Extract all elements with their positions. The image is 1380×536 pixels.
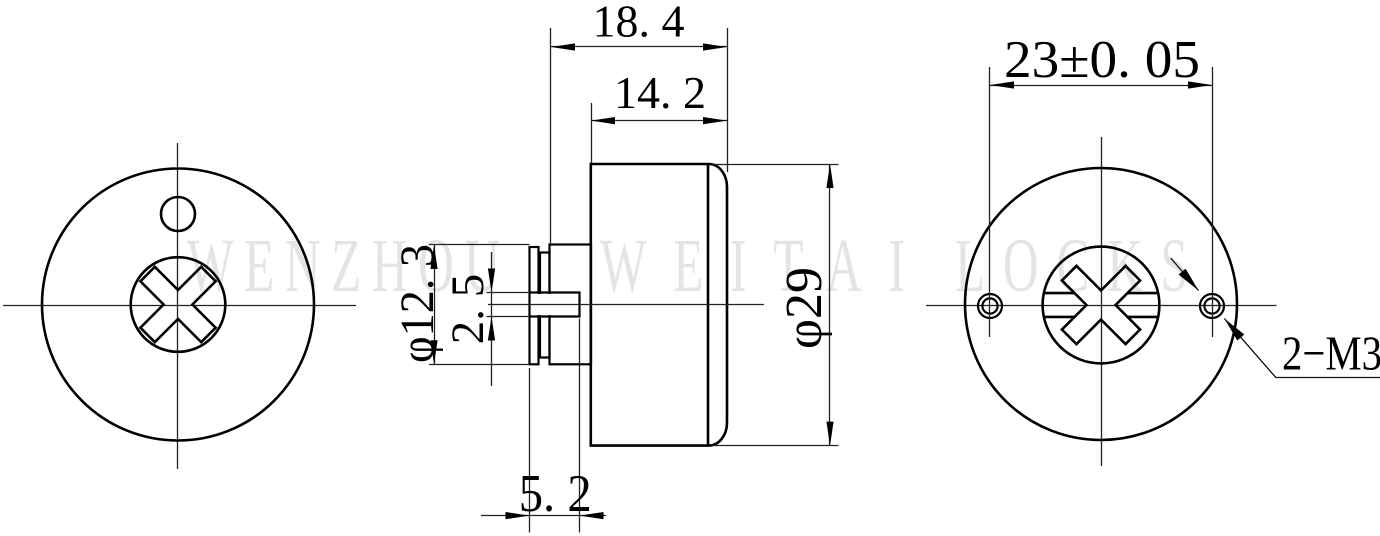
svg-text:φ12. 3: φ12. 3: [391, 244, 444, 363]
motor body: [591, 164, 727, 446]
dim 2.5 extension line top: [487, 292, 530, 294]
slot line left top: [1044, 292, 1075, 295]
dim 2.5 line: [491, 252, 493, 386]
bushing: [550, 245, 592, 365]
dim phi29 line: [829, 164, 831, 446]
dim phi12.3 extension line bottom: [429, 364, 530, 366]
dim phi29 arrow bottom: [826, 422, 833, 446]
left view center boss circle: [131, 257, 226, 352]
shaft outline: [530, 293, 580, 317]
svg-text:18. 4: 18. 4: [593, 0, 685, 47]
right view X cross recess: [1062, 266, 1140, 344]
dim 14.2 arrow right: [703, 117, 727, 124]
leader upper arrow: [1179, 269, 1199, 291]
left view vertical centerline: [177, 143, 179, 469]
watermark WENZHOU WEITAI LOCKS: [187, 223, 1188, 307]
left view small hole: [161, 197, 195, 231]
dim phi12.3 line: [434, 245, 436, 365]
right view horizontal centerline: [926, 305, 1277, 307]
dim 5.2 arrow left: [506, 512, 530, 519]
right view outer circle: [965, 168, 1237, 440]
screw hole right outer: [1200, 294, 1224, 318]
dim 5.2 line: [481, 515, 606, 517]
dim phi12.3 arrow bottom: [430, 340, 437, 364]
dim 23 extension line left: [989, 67, 991, 337]
left view horizontal centerline: [3, 305, 356, 307]
slot line left bottom: [1044, 316, 1075, 319]
dim 5.2 extension line right: [579, 319, 581, 533]
dim 18.4 line: [551, 46, 728, 48]
leader lower segment: [1224, 319, 1380, 378]
dim 18.4 extension line left: [550, 28, 552, 244]
dim 23 line: [990, 85, 1212, 87]
left view outer circle: [42, 169, 314, 441]
screw hole left inner: [982, 298, 997, 313]
leader lower arrow: [1224, 319, 1244, 341]
slot line right bottom: [1128, 316, 1159, 319]
svg-text:14. 2: 14. 2: [614, 67, 706, 118]
dim 2.5 extension line bottom: [487, 316, 530, 318]
dim 14.2 line: [591, 120, 728, 122]
dim 23 extension line right: [1212, 67, 1214, 337]
dim 23 arrow left: [990, 81, 1014, 88]
dim 2.5 arrow bottom: [488, 317, 495, 341]
dim phi12.3 extension line top: [429, 244, 530, 246]
dim 14.2 extension line left: [591, 103, 593, 163]
svg-text:φ29: φ29: [776, 267, 833, 349]
slot line right top: [1128, 292, 1159, 295]
dim 5.2 extension line left: [529, 368, 531, 533]
dim 5.2 arrow right: [580, 512, 604, 519]
washer plate 2: [540, 253, 550, 358]
dim 18.4/14.2 extension line right: [727, 28, 729, 172]
dim phi29 extension line top: [712, 164, 839, 166]
svg-text:2−M3: 2−M3: [1282, 326, 1380, 381]
body seam line: [707, 164, 710, 446]
middle view horizontal centerline: [488, 304, 764, 306]
svg-text:5. 2: 5. 2: [519, 465, 592, 523]
right view center boss circle: [1043, 247, 1160, 364]
dim 18.4 arrow left: [551, 43, 575, 50]
svg-text:2. 5: 2. 5: [442, 274, 494, 345]
dim phi29 arrow top: [826, 164, 833, 188]
dim 2.5 arrow top: [488, 269, 495, 293]
dim 14.2 arrow left: [591, 117, 615, 124]
shaft white fill: [531, 294, 580, 315]
leader upper segment: [1171, 258, 1199, 290]
dim 23 arrow right: [1188, 81, 1212, 88]
dim phi12.3 arrow top: [430, 245, 437, 269]
dim 18.4 arrow right: [703, 43, 727, 50]
right view vertical centerline: [1101, 137, 1103, 466]
washer plate 1: [530, 247, 539, 364]
svg-text:23±0. 05: 23±0. 05: [1004, 31, 1200, 89]
left view X cross recess: [140, 267, 215, 342]
screw hole right inner: [1204, 298, 1219, 313]
screw hole left outer: [978, 294, 1002, 318]
dim phi29 extension line bottom: [712, 445, 839, 447]
